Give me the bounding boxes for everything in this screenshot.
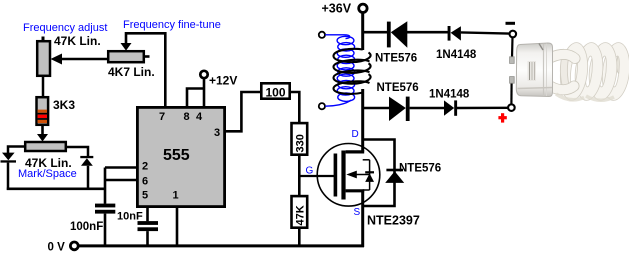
- wire loop bottom to pins 2/6 junction: [7, 188, 105, 191]
- svg-text:8: 8: [184, 111, 190, 123]
- spiral bottom shading: [556, 94, 584, 100]
- wire D5 to D6: [410, 107, 445, 110]
- svg-text:3K3: 3K3: [53, 98, 75, 112]
- wire 0V rail: [79, 244, 365, 247]
- wire pin 3 to 100 resistor: [226, 92, 261, 131]
- wire pin 2: [105, 166, 137, 169]
- svg-text:D: D: [352, 129, 359, 140]
- svg-text:Mark/Space: Mark/Space: [18, 168, 77, 180]
- wire D6 to lamp plus terminal: [457, 107, 508, 110]
- svg-text:NTE576: NTE576: [399, 163, 441, 175]
- svg-text:+36V: +36V: [322, 2, 352, 16]
- svg-text:0 V: 0 V: [48, 242, 66, 254]
- label minus sign: [506, 22, 516, 25]
- svg-text:4: 4: [196, 111, 203, 123]
- terminal lamp plus: [508, 104, 515, 111]
- lamp base housing: [516, 43, 552, 97]
- tube end cap: [615, 48, 629, 75]
- diode D6 1N4148 (bottom): [444, 100, 457, 115]
- capacitor C1 100nF: [95, 204, 115, 247]
- resistor R2 100: [261, 83, 289, 98]
- diode D3 NTE576 (top): [387, 21, 407, 48]
- transistor Q1 channel bar: [341, 151, 345, 200]
- wire +36V down to primary top: [361, 13, 364, 51]
- svg-text:100nF: 100nF: [70, 221, 103, 233]
- svg-text:Frequency fine-tune: Frequency fine-tune: [123, 19, 221, 31]
- svg-text:4K7 Lin.: 4K7 Lin.: [108, 65, 155, 79]
- loop 1 far-side sliver: [564, 54, 567, 89]
- wire fine-tune to 555 pin 7: [126, 33, 165, 106]
- svg-text:6: 6: [142, 175, 148, 187]
- potentiometer VR1 47K Lin. (frequency adjust): [37, 37, 50, 99]
- resistor R3 330: [292, 123, 308, 155]
- svg-text:100: 100: [266, 86, 286, 100]
- wire gate node to MOSFET: [299, 175, 334, 177]
- wire 330 to 47K: [298, 155, 301, 196]
- wire pin 8 to +12V bracket: [187, 89, 204, 107]
- wire 47K to 0V rail: [298, 228, 301, 247]
- svg-text:1: 1: [173, 190, 179, 202]
- loop 5: [600, 41, 629, 101]
- potentiometer VR2 47K Lin. Mark/Space: [25, 142, 66, 151]
- svg-text:2: 2: [142, 161, 148, 173]
- svg-text:G: G: [306, 166, 314, 177]
- svg-text:330: 330: [295, 134, 307, 152]
- svg-text:555: 555: [163, 147, 190, 164]
- wire +36V node to top diode pair: [363, 31, 387, 34]
- wire primary bottom to drain: [361, 89, 364, 152]
- lamp spiral tube: [516, 41, 629, 102]
- wire plus terminal to lamp pin: [510, 83, 512, 105]
- transformer T1 secondary terminal top: [319, 32, 325, 38]
- wire 4K7 wiper arrow: [121, 32, 132, 51]
- wire 100 to 330: [290, 92, 299, 123]
- wire pin 6: [105, 179, 137, 182]
- wire pin 4 to +12V: [203, 79, 206, 107]
- svg-text:1N4148: 1N4148: [429, 89, 470, 101]
- transistor Q1 gate bar: [334, 154, 338, 197]
- svg-text:+12V: +12V: [209, 74, 237, 88]
- wire arrow from 3K3 to Mark/Space pot wiper: [37, 125, 48, 142]
- lamp pins: [510, 57, 515, 64]
- label plus sign (red): [498, 113, 506, 122]
- svg-text:NTE576: NTE576: [377, 82, 419, 94]
- lamp base label text block: [528, 61, 537, 81]
- svg-text:S: S: [354, 207, 361, 218]
- wire drain node to bottom diode pair: [363, 107, 390, 110]
- terminal +12V: [200, 71, 207, 78]
- diode D5 NTE576 (bottom): [389, 97, 410, 121]
- loop 4: [586, 41, 619, 102]
- loop 2: [558, 41, 591, 101]
- capacitor C2 10nF: [138, 221, 159, 247]
- lamp CFL bulb: [510, 41, 629, 102]
- svg-text:NTE2397: NTE2397: [367, 214, 420, 228]
- neck tube top: [551, 54, 575, 58]
- svg-text:3: 3: [214, 127, 220, 139]
- svg-text:47K: 47K: [295, 205, 307, 225]
- diode D2 (right steering diode): [80, 156, 93, 190]
- transformer T1 secondary winding (blue): [325, 35, 354, 106]
- svg-text:Frequency adjust: Frequency adjust: [23, 22, 107, 34]
- resistor R1 3K3: [37, 97, 49, 125]
- wire pin 5 to 10nF: [146, 206, 149, 221]
- wire pot left end down: [8, 147, 25, 154]
- wire pot right end down: [66, 147, 88, 156]
- transistor Q1 drain connect: [346, 150, 365, 153]
- transformer T1 primary winding (black): [334, 49, 371, 94]
- terminal lamp minus: [510, 31, 517, 38]
- terminal +36V: [359, 4, 367, 12]
- transistor Q1 body diode: [363, 160, 374, 190]
- loop 3: [572, 41, 605, 102]
- wire wiper arrow to 47K pot: [51, 54, 110, 65]
- diode D7 NTE576 across MOSFET: [363, 140, 405, 207]
- svg-text:7: 7: [159, 111, 165, 123]
- transistor Q1 source connect: [346, 189, 365, 192]
- transistor Q1 body arrow: [346, 171, 369, 179]
- terminal 0V: [70, 242, 78, 250]
- wire D3 to D4: [407, 31, 448, 34]
- potentiometer VR3 4K7 Lin. (frequency fine-tune): [108, 51, 149, 62]
- svg-text:47K Lin.: 47K Lin.: [54, 34, 101, 48]
- wire source down to 0V rail: [361, 191, 364, 248]
- svg-text:5: 5: [142, 190, 148, 202]
- transformer T1 secondary terminal bottom: [319, 103, 325, 109]
- diode D1 (left steering diode): [1, 153, 17, 190]
- wire pin 1 to 0V rail: [176, 206, 179, 247]
- neck tube bottom: [551, 86, 574, 90]
- wire D4 to lamp minus terminal: [461, 32, 510, 33]
- diode D4 1N4148 (top): [448, 26, 461, 41]
- svg-text:10nF: 10nF: [117, 211, 143, 223]
- wire junction down to 100nF: [104, 168, 107, 204]
- svg-text:NTE576: NTE576: [375, 53, 417, 65]
- wire minus terminal to lamp pin: [511, 37, 514, 58]
- op-amp U1 555 timer body: [137, 107, 224, 206]
- transistor Q1 NTE2397 MOSFET circle: [317, 144, 380, 207]
- resistor R4 47K: [292, 196, 308, 228]
- svg-text:1N4148: 1N4148: [436, 49, 477, 61]
